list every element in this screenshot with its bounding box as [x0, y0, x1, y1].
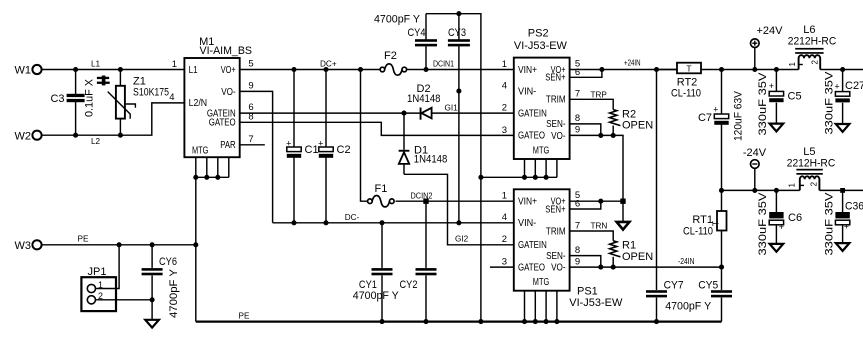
- junction JP1 pin1 PE: [117, 242, 122, 247]
- junctions M1 MTG bus: [193, 175, 220, 180]
- net label PE: [78, 234, 89, 243]
- wire PS2 SEN- join: [570, 124, 601, 135]
- net label -24IN: [678, 257, 695, 266]
- svg-text:9: 9: [248, 80, 253, 91]
- wire JP1 pin1 to PE: [96, 245, 120, 289]
- capacitor CY3: [448, 14, 470, 223]
- svg-text:VI-AIM_BS: VI-AIM_BS: [200, 45, 253, 57]
- svg-text:VIN-: VIN-: [518, 87, 536, 98]
- svg-text:+: +: [713, 105, 718, 115]
- svg-text:VIN+: VIN+: [518, 65, 537, 76]
- junction PS2 SEN+: [599, 67, 604, 72]
- svg-text:TRN: TRN: [591, 222, 608, 231]
- wire PS1 SEN+ join: [570, 201, 601, 209]
- svg-text:CL-110: CL-110: [671, 87, 701, 99]
- svg-text:OPEN: OPEN: [622, 251, 653, 263]
- fuse F1: [368, 183, 395, 207]
- svg-text:SEN-: SEN-: [546, 119, 566, 130]
- junction CY3 at PS2 VIN-: [456, 89, 461, 94]
- junction C7 top: [719, 67, 724, 72]
- stub M1 PAR pin 7: [240, 144, 265, 146]
- capacitor C2: [318, 70, 350, 223]
- PS1 MTG pins to PE rail: [525, 291, 557, 322]
- svg-text:-24V: -24V: [743, 147, 767, 159]
- junction C7 bottom -24 rail: [719, 188, 724, 193]
- svg-text:TRIM: TRIM: [546, 95, 566, 106]
- svg-text:2: 2: [810, 181, 819, 186]
- junctions PS2 MTG bus: [478, 175, 548, 180]
- svg-text:4: 4: [169, 92, 174, 103]
- terminal W2: [15, 130, 42, 142]
- wire M1 MTG to PE rail: [195, 177, 197, 321]
- wire M1 VO- down to DC-: [240, 91, 273, 222]
- capacitor CY6: [142, 245, 180, 320]
- svg-text:C27: C27: [845, 80, 863, 92]
- common arrow symbol: [617, 201, 630, 229]
- svg-text:4700pF Y: 4700pF Y: [374, 14, 421, 26]
- net label L1: [91, 59, 101, 68]
- svg-text:TRP: TRP: [591, 90, 608, 99]
- svg-text:L1: L1: [189, 65, 198, 76]
- svg-text:VO-: VO-: [551, 131, 566, 142]
- svg-text:+: +: [769, 81, 774, 91]
- junction CY2 top DCIN2: [423, 199, 428, 204]
- pin number 7 (M1 PAR): [248, 134, 253, 145]
- svg-text:GI1: GI1: [445, 103, 459, 112]
- svg-text:330uF 35V: 330uF 35V: [757, 72, 769, 136]
- net label DCIN2: [411, 192, 433, 201]
- svg-text:VIN+: VIN+: [518, 197, 537, 208]
- PS1 pin numbers 1 4 2 3 5 6 7 8 9: [502, 190, 580, 267]
- junction CY1 bottom PE: [379, 319, 384, 324]
- svg-text:2212H-RC: 2212H-RC: [788, 36, 837, 48]
- junction PS2 SEN-: [598, 133, 603, 138]
- capacitor CY4: [408, 14, 438, 70]
- svg-text:RT1: RT1: [692, 214, 713, 226]
- capacitor C6 330uF: [757, 190, 802, 255]
- svg-text:2: 2: [502, 234, 507, 245]
- svg-text:R2: R2: [622, 108, 636, 120]
- svg-text:C2: C2: [337, 144, 351, 156]
- net label DC+: [320, 60, 337, 69]
- wire -24IN PS1 VO- to RT1: [570, 266, 722, 268]
- svg-text:1: 1: [172, 59, 177, 70]
- svg-text:PS1: PS1: [577, 285, 598, 297]
- M1 MTG pins: [196, 157, 229, 177]
- svg-text:GI2: GI2: [455, 234, 469, 243]
- junction CY7 bottom PE: [654, 319, 659, 324]
- svg-text:7: 7: [575, 220, 580, 231]
- svg-text:L6: L6: [803, 24, 815, 36]
- svg-text:L5: L5: [803, 146, 815, 158]
- pin number 8 (M1 GATEO): [248, 112, 253, 123]
- square junction C36 top: [840, 188, 845, 193]
- svg-text:7: 7: [248, 134, 253, 145]
- net label DCIN1: [433, 60, 454, 69]
- svg-text:VI-J53-EW: VI-J53-EW: [514, 40, 568, 52]
- PE bottom rail: [196, 321, 722, 323]
- svg-text:CY6: CY6: [159, 256, 177, 268]
- wire PS2 SEN+ join: [570, 70, 602, 78]
- capacitor CY1: [353, 223, 400, 322]
- svg-text:5: 5: [248, 59, 253, 70]
- module PS2 VI-J53-EW: [514, 28, 570, 160]
- svg-text:PAR: PAR: [220, 140, 236, 151]
- svg-text:MTG: MTG: [533, 277, 550, 288]
- thermistor RT2 CL-110: [657, 63, 702, 100]
- capacitor C3: [50, 70, 95, 136]
- junctions PS1 MTG on PE rail: [522, 319, 560, 324]
- svg-text:C3: C3: [50, 93, 64, 105]
- varistor Z1: [108, 70, 169, 136]
- svg-text:C36: C36: [845, 200, 863, 212]
- junction RT1 bottom -24IN: [719, 265, 724, 270]
- svg-text:1: 1: [788, 182, 797, 187]
- power symbol +24V: [751, 25, 784, 70]
- wire +24 rail RT2 to edge: [701, 69, 863, 71]
- junction CY1 top DC-: [379, 220, 384, 225]
- label 4700pF Y (CY3/CY4): [374, 14, 421, 26]
- svg-text:GATEO: GATEO: [518, 131, 545, 142]
- svg-text:C5: C5: [788, 91, 802, 103]
- svg-text:L2/N: L2/N: [189, 98, 208, 109]
- svg-text:W3: W3: [15, 240, 32, 252]
- junction C1 top: [291, 67, 296, 72]
- svg-text:PE: PE: [239, 311, 250, 320]
- pin number 6 (M1 GATEIN): [248, 102, 253, 113]
- thermistor RT1 CL-110: [683, 190, 727, 267]
- svg-text:4700pF Y: 4700pF Y: [353, 290, 400, 302]
- svg-text:8: 8: [575, 113, 580, 124]
- svg-text:DCIN2: DCIN2: [411, 192, 433, 201]
- svg-text:CY3: CY3: [448, 27, 466, 39]
- net label TRP: [591, 90, 608, 99]
- svg-text:S10K175: S10K175: [133, 87, 169, 99]
- svg-text:TRIM: TRIM: [546, 226, 566, 237]
- ground C5: [770, 124, 784, 132]
- svg-text:120uF 63V: 120uF 63V: [732, 90, 744, 141]
- X-capacitor safety symbol: [97, 76, 110, 86]
- svg-text:1: 1: [502, 191, 507, 202]
- power symbol -24V: [743, 147, 767, 190]
- svg-text:CY5: CY5: [698, 279, 718, 291]
- wire DCIN2 F1 to PS1 VIN+: [396, 200, 514, 202]
- junction C2 top: [323, 67, 328, 72]
- wire GATEO M1 to PS2: [240, 122, 514, 135]
- svg-text:T: T: [686, 63, 691, 73]
- svg-text:3: 3: [502, 257, 507, 268]
- wire -24 rail: [722, 189, 863, 191]
- svg-text:+24V: +24V: [757, 25, 784, 37]
- svg-text:GATEO: GATEO: [209, 118, 236, 129]
- junction CY6 top PE: [150, 242, 155, 247]
- PS2 MTG bus wire to PE: [481, 176, 557, 178]
- svg-text:2212H-RC: 2212H-RC: [787, 158, 836, 170]
- wire W2 rail to M1 L2/N: [42, 103, 185, 135]
- svg-text:GATEIN: GATEIN: [518, 240, 547, 251]
- svg-text:9: 9: [575, 125, 580, 136]
- junction +24V: [752, 67, 757, 72]
- svg-text:GATEO: GATEO: [518, 262, 545, 273]
- svg-text:9: 9: [575, 256, 580, 267]
- module M1 VI-AIM_BS: [184, 36, 252, 157]
- svg-text:4700pF Y: 4700pF Y: [665, 300, 712, 312]
- net label PE bottom: [239, 311, 250, 320]
- svg-text:GATEIN: GATEIN: [518, 108, 547, 119]
- svg-text:SEN+: SEN+: [545, 204, 565, 215]
- svg-text:7: 7: [575, 89, 580, 100]
- net label GI1: [445, 103, 459, 112]
- net label L2: [91, 137, 101, 146]
- svg-text:6: 6: [575, 67, 580, 78]
- diode D2 1N4148: [407, 83, 441, 120]
- svg-text:DCIN1: DCIN1: [433, 60, 454, 69]
- svg-text:MTG: MTG: [533, 145, 550, 156]
- fuse F2: [380, 50, 407, 75]
- svg-text:DC+: DC+: [320, 60, 337, 69]
- wire PS1 SEN- join: [570, 256, 601, 268]
- terminal W1: [15, 65, 42, 77]
- terminal W3: [15, 240, 42, 252]
- wire +24IN PS2 VO+ to RT2: [570, 69, 677, 71]
- capacitor C7 120uF: [698, 70, 744, 191]
- junction C3 top: [73, 67, 78, 72]
- svg-text:VI-J53-EW: VI-J53-EW: [569, 297, 623, 309]
- wire PS2 TRIM to R2: [570, 99, 614, 109]
- svg-text:6: 6: [575, 199, 580, 210]
- module PS1 VI-J53-EW: [514, 189, 623, 308]
- wire D1 to GI2 PS1 GATEIN: [404, 174, 514, 245]
- svg-text:F1: F1: [375, 183, 388, 195]
- resistor R2 OPEN: [610, 108, 654, 135]
- svg-text:CL-110: CL-110: [683, 225, 713, 237]
- diode D1 1N4148: [399, 113, 448, 174]
- junction CY7 top +24IN: [654, 67, 659, 72]
- wire PS1 VO+ to common link: [570, 200, 623, 202]
- capacitor C5 330uF: [757, 70, 802, 136]
- net label DC-: [345, 213, 360, 222]
- junction CY4 bottom DCIN1: [423, 67, 428, 72]
- svg-text:DC-: DC-: [345, 213, 360, 222]
- capacitor C27 330uF: [824, 70, 863, 135]
- capacitor C1: [286, 70, 318, 223]
- svg-text:SEN+: SEN+: [545, 73, 565, 84]
- svg-text:JP1: JP1: [88, 266, 107, 278]
- junction R2 bottom: [611, 133, 616, 138]
- svg-text:C1: C1: [305, 144, 319, 156]
- junction CY2 bottom PE: [423, 319, 428, 324]
- PS2 MTG pins: [525, 159, 557, 177]
- capacitor CY2: [400, 201, 437, 321]
- svg-text:VO+: VO+: [221, 65, 236, 76]
- svg-text:MTG: MTG: [192, 145, 209, 156]
- wire DC+ branch down to F1: [361, 70, 368, 202]
- wire PS2 VO- to common link: [570, 135, 623, 201]
- svg-text:4: 4: [502, 81, 507, 92]
- net label +24IN: [624, 58, 641, 67]
- junction C1 bottom: [291, 220, 296, 225]
- junction PS1 VO+ SEN+ join: [598, 199, 603, 204]
- pin number 5 (M1 VO+): [248, 59, 253, 70]
- svg-text:PS2: PS2: [528, 28, 549, 40]
- svg-text:1N4148: 1N4148: [407, 93, 441, 105]
- svg-text:W2: W2: [15, 130, 32, 142]
- svg-text:+: +: [779, 222, 784, 232]
- svg-text:F2: F2: [384, 50, 397, 62]
- svg-text:C6: C6: [788, 212, 802, 224]
- svg-text:3: 3: [502, 125, 507, 136]
- wire GATEIN GI1 line M1 to PS2: [240, 112, 514, 114]
- svg-text:+: +: [318, 138, 323, 148]
- PS2 pin numbers 1 4 2 3 5 6 7 8 9: [502, 59, 580, 136]
- svg-text:L2: L2: [91, 137, 101, 146]
- capacitor CY5: [665, 267, 732, 322]
- svg-text:2: 2: [502, 103, 507, 114]
- svg-text:CY7: CY7: [664, 279, 684, 291]
- svg-text:L1: L1: [91, 59, 101, 68]
- junction JP1 pin2 CY6: [150, 297, 155, 302]
- svg-text:330uF 35V: 330uF 35V: [757, 192, 769, 256]
- wire W3 PE: [42, 244, 196, 246]
- svg-text:VO-: VO-: [551, 263, 566, 274]
- svg-text:VO-: VO-: [221, 87, 236, 98]
- wire JP1 pin2 to CY6: [96, 299, 153, 301]
- M1 MTG bus wire: [196, 176, 229, 178]
- wire W1 to M1 L1: [42, 69, 185, 71]
- junction -24V: [752, 188, 757, 193]
- junction C6 top: [774, 188, 779, 193]
- junction CY3 at DC-: [456, 220, 461, 225]
- wire DC- rail: [273, 222, 514, 224]
- junction C5 top: [774, 67, 779, 72]
- net label GI2: [455, 234, 469, 243]
- junction R1 bottom: [611, 265, 616, 270]
- svg-text:2: 2: [811, 60, 820, 65]
- svg-text:8: 8: [575, 245, 580, 256]
- wire PS1 TRIM to R1: [570, 231, 614, 241]
- svg-text:+: +: [286, 138, 291, 148]
- inductor L5 2212H-RC: [787, 146, 836, 190]
- junction GI1 at D1 branch: [401, 111, 406, 116]
- ground C27: [836, 124, 850, 132]
- svg-text:C7: C7: [698, 112, 712, 124]
- svg-text:VIN-: VIN-: [518, 218, 536, 229]
- svg-text:+24IN: +24IN: [624, 58, 641, 67]
- svg-text:CY4: CY4: [408, 27, 426, 39]
- junction PE vertical on rail: [478, 319, 483, 324]
- svg-text:CY2: CY2: [400, 279, 418, 291]
- svg-text:330uF 35V: 330uF 35V: [824, 71, 836, 135]
- svg-text:4: 4: [502, 212, 507, 223]
- junction C3 bottom: [73, 133, 78, 138]
- wire CY top bus to PE: [426, 14, 481, 322]
- junction CY3 top: [456, 11, 461, 16]
- junction PS1 SEN-: [598, 265, 603, 270]
- svg-text:+: +: [844, 221, 849, 231]
- resistor R1 OPEN: [610, 240, 654, 268]
- svg-text:W1: W1: [15, 65, 32, 77]
- net label TRN: [591, 222, 608, 231]
- junction Z1 top: [118, 67, 123, 72]
- svg-text:330uF 35V: 330uF 35V: [824, 192, 836, 256]
- svg-text:-24IN: -24IN: [678, 257, 695, 266]
- capacitor C36 330uF: [824, 190, 863, 255]
- ground C36: [836, 243, 850, 251]
- svg-text:1: 1: [502, 59, 507, 70]
- ground C6: [770, 244, 784, 252]
- capacitor CY7: [646, 70, 684, 322]
- svg-text:4700pF Y: 4700pF Y: [168, 268, 180, 318]
- connector JP1: [81, 266, 116, 311]
- svg-text:1N4148: 1N4148: [414, 154, 448, 166]
- svg-text:OPEN: OPEN: [622, 120, 653, 132]
- pin number 9 (M1 VO-): [248, 80, 253, 91]
- svg-text:R1: R1: [622, 240, 636, 252]
- junction Z1 bottom: [118, 133, 123, 138]
- svg-text:1: 1: [788, 62, 797, 67]
- junction PE at MTG vertical: [193, 242, 198, 247]
- pin number 1 (M1 L1): [172, 59, 177, 70]
- junction C2 bottom: [323, 220, 328, 225]
- junction DC+ to F1 branch: [358, 67, 363, 72]
- ground CY6: [145, 320, 159, 328]
- stub PS1 GATEO pin 3 open: [490, 266, 514, 268]
- wire DC+ rail M1 VO+ to F2: [240, 69, 380, 71]
- svg-text:PE: PE: [78, 234, 89, 243]
- svg-text:SEN-: SEN-: [546, 251, 566, 262]
- square junction common link: [620, 199, 625, 204]
- junction C27 top: [840, 67, 845, 72]
- inductor L6 2212H-RC: [788, 24, 837, 69]
- wire DCIN1 F2 to PS2 VIN+: [407, 69, 514, 71]
- pin number 4 (M1 L2/N): [169, 92, 174, 103]
- svg-text:0.1uF X: 0.1uF X: [84, 78, 96, 117]
